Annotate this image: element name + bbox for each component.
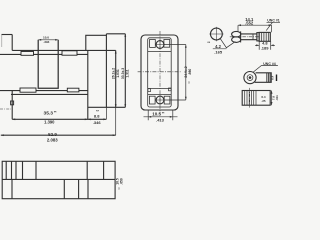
svg-text:.413: .413 xyxy=(156,118,165,123)
node: latch block left xyxy=(148,89,151,92)
node: serrations xyxy=(267,73,270,82)
node: top left pocket xyxy=(150,40,156,48)
wire: UNC leader 1 xyxy=(266,22,280,30)
node: latch block right xyxy=(169,88,172,91)
node: central coil rect xyxy=(38,40,58,88)
svg-text:52.9: 52.9 xyxy=(48,132,57,137)
dim arrows 35.3/8.8 xyxy=(12,118,106,120)
wire: hole ext top xyxy=(164,44,186,46)
wire: body top edge xyxy=(12,49,116,51)
terminal lug D xyxy=(67,88,79,92)
wire: tower2 top xyxy=(106,33,125,35)
svg-text:.980: .980 xyxy=(188,69,192,76)
node: bottom view outline xyxy=(2,161,115,198)
wire: bracket lower edge A xyxy=(0,90,88,92)
wire: flange right vertical xyxy=(11,35,13,51)
dim arrows 52.9 xyxy=(1,134,116,136)
dimension 10.0 arrows xyxy=(38,39,58,41)
svg-text:2.083: 2.083 xyxy=(47,138,58,143)
wire: dim extension 33.3 xyxy=(124,34,126,108)
terminal lug C xyxy=(20,88,36,92)
node: block body xyxy=(242,91,270,106)
wire: block centerline xyxy=(249,88,251,108)
dimension block height xyxy=(271,91,273,106)
node: bottom mounting hole xyxy=(156,96,164,104)
node: outer case xyxy=(141,35,178,110)
wire: bracket upper edge xyxy=(0,53,88,55)
node: top right pocket xyxy=(164,40,170,48)
svg-text:.311: .311 xyxy=(275,95,279,101)
node: eyelet body xyxy=(255,73,272,83)
wire: crosshair xyxy=(209,27,223,41)
dimension hole spacing line xyxy=(185,45,187,101)
wire: body bottom edge / dim line xyxy=(12,118,106,120)
wire: shaft shoulder xyxy=(252,34,254,40)
svg-text:4.2: 4.2 xyxy=(215,44,221,49)
node: eyelet ring xyxy=(244,72,256,84)
wire: vertical centerline xyxy=(159,31,161,114)
dimension 14.1 line xyxy=(238,24,272,26)
node: threaded block xyxy=(259,32,270,41)
dim arrow 26.2 xyxy=(115,50,117,107)
svg-text:.25: .25 xyxy=(261,99,266,103)
wire: inner line mid xyxy=(148,88,172,90)
svg-text:.165: .165 xyxy=(214,50,223,55)
svg-text:8.8: 8.8 xyxy=(94,114,100,119)
node: left edge notch xyxy=(11,101,14,105)
svg-text:10.0: 10.0 xyxy=(43,35,49,39)
wire: bottom band verticals xyxy=(12,179,88,198)
dim 14.1 ext xyxy=(238,25,272,32)
svg-text:.346: .346 xyxy=(93,120,102,125)
wire: body left edge xyxy=(11,91,13,120)
node: top mounting hole xyxy=(156,41,164,49)
node: crimp stripes xyxy=(245,91,256,106)
terminal lug B xyxy=(62,51,77,55)
wire: leader to dia text xyxy=(220,39,235,48)
wire: mid line xyxy=(2,178,115,180)
wire: bracket lower edge B xyxy=(11,93,88,95)
svg-text:.189: .189 xyxy=(261,46,270,51)
wire: tower right vertical xyxy=(105,34,107,108)
dimension 10.5 line xyxy=(144,116,178,118)
wire: hole ext bottom xyxy=(164,99,186,101)
wire: flange top edge xyxy=(2,34,13,36)
wire: fraction bar dia xyxy=(213,48,227,50)
node: clevis lobes xyxy=(232,31,241,37)
dimension 4.8 xyxy=(259,41,271,50)
svg-text:1.031: 1.031 xyxy=(116,69,120,78)
wire: tower1 left xyxy=(86,35,107,50)
svg-text:6.4: 6.4 xyxy=(271,75,275,79)
wire: shaft xyxy=(241,34,257,40)
dimension 10.0 line xyxy=(38,39,58,41)
wire: 52.9 dim line xyxy=(1,134,116,136)
svg-text:1.390: 1.390 xyxy=(44,120,55,125)
node: washer xyxy=(257,33,259,41)
wire: flange left edge faint xyxy=(1,35,3,48)
wire: cover right edge xyxy=(87,50,89,119)
wire: top band verticals xyxy=(6,161,103,179)
dimension 10.5 ext xyxy=(148,110,173,120)
svg-text:.394: .394 xyxy=(43,40,49,44)
wire: horizontal centerline xyxy=(138,71,181,73)
wire: dim extension 26.2 / 52.9 xyxy=(115,50,117,107)
terminal lug A xyxy=(21,52,34,56)
svg-text:1.311: 1.311 xyxy=(125,69,129,77)
svg-text:UNC #1: UNC #1 xyxy=(267,19,280,23)
node: bottom left pocket xyxy=(149,96,155,104)
wire: inner line low xyxy=(148,94,172,96)
dim arrow 33.3 bottom xyxy=(124,34,126,108)
node: bottom right pocket xyxy=(164,96,170,104)
wire: step bottom xyxy=(88,106,126,108)
wire: shaft centerline xyxy=(230,36,271,38)
svg-text:.552: .552 xyxy=(245,21,254,26)
node: inner wall xyxy=(148,38,172,107)
wire: inner line top xyxy=(148,51,172,53)
node: stud end circle xyxy=(211,28,223,40)
wire: left centerline xyxy=(0,108,11,110)
node: side mark xyxy=(276,75,278,82)
svg-text:.650: .650 xyxy=(120,178,124,185)
wire: UNC leader 2 xyxy=(253,66,278,73)
svg-text:UNC #4: UNC #4 xyxy=(263,62,276,66)
